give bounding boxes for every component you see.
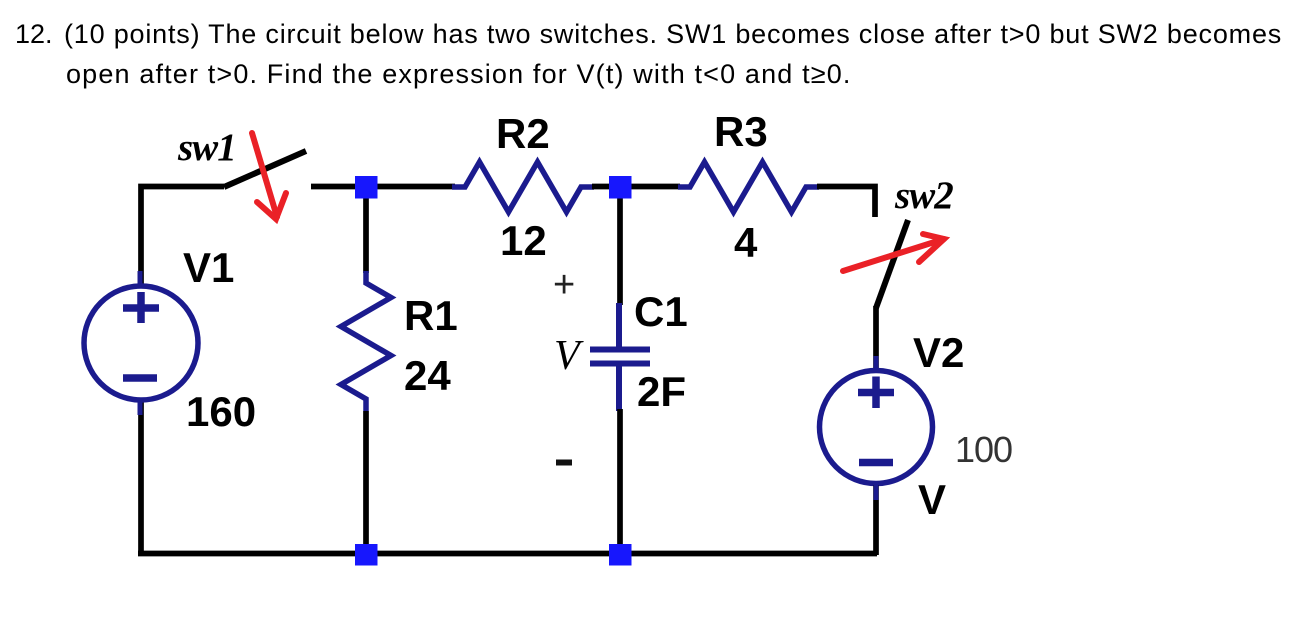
svg-text:2F: 2F	[637, 368, 686, 415]
svg-text:V1: V1	[183, 244, 234, 291]
label V across capacitor	[554, 333, 584, 379]
wire V2 bottom to bottom rail	[873, 485, 879, 555]
label R1	[404, 292, 458, 339]
label R3	[714, 108, 768, 155]
unit V	[918, 476, 946, 523]
wire sw2 to V2	[873, 306, 879, 371]
wire node2 down to C1	[617, 189, 623, 305]
label R2	[496, 110, 550, 157]
label sw1	[177, 126, 236, 169]
value 160	[186, 388, 256, 435]
node junction bottom-middle	[609, 544, 632, 566]
switch sw1 red arrow	[252, 133, 286, 219]
wire C1 bottom to bottom rail	[617, 409, 623, 553]
switch sw2 red arrow	[843, 234, 944, 271]
label V2	[913, 329, 964, 376]
value 100	[955, 429, 1012, 470]
resistor R1	[341, 271, 391, 411]
label C1	[634, 288, 688, 335]
polarity plus	[553, 264, 575, 306]
svg-text:100: 100	[955, 429, 1012, 470]
svg-text:R3: R3	[714, 108, 768, 155]
svg-text:V: V	[918, 476, 946, 523]
svg-text:C1: C1	[634, 288, 688, 335]
svg-text:12: 12	[500, 217, 547, 264]
node junction top-left	[355, 176, 378, 199]
svg-text:24: 24	[404, 352, 451, 399]
svg-text:V2: V2	[913, 329, 964, 376]
switch sw2 blade	[876, 220, 908, 308]
bottom rail wire	[138, 551, 877, 557]
value 12	[500, 217, 547, 264]
resistor R3	[678, 162, 819, 212]
problem statement line 2	[66, 59, 852, 90]
wire top segment from sw1 to R2	[311, 184, 455, 190]
svg-text:V: V	[554, 333, 584, 379]
switch sw1 blade	[224, 151, 306, 187]
V2 top lead stub	[874, 356, 879, 371]
value 2F	[637, 368, 686, 415]
wire between R2 and R3	[592, 184, 680, 190]
svg-text:R2: R2	[496, 110, 550, 157]
value 4	[734, 219, 758, 266]
wire from R3 to sw2 corner	[817, 187, 875, 218]
problem statement line 1	[15, 19, 53, 50]
V2 bottom lead stub	[874, 485, 879, 500]
svg-text:R1: R1	[404, 292, 458, 339]
wire left vertical lower (V1 bottom to bottom rail)	[138, 398, 144, 553]
capacitor C1	[590, 303, 650, 411]
svg-text:sw1: sw1	[177, 126, 236, 169]
node junction bottom-left	[355, 544, 378, 566]
svg-text:160: 160	[186, 388, 256, 435]
wire node1 down to R1	[363, 188, 369, 273]
polarity minus	[556, 460, 572, 466]
label sw2	[894, 174, 953, 217]
wire R1 bottom to bottom rail	[363, 411, 369, 553]
wire left vertical and top-left segment	[141, 187, 224, 289]
node junction top-middle	[609, 176, 632, 199]
value 24	[404, 352, 451, 399]
svg-text:+: +	[553, 264, 575, 306]
svg-text:sw2: sw2	[894, 174, 953, 217]
voltage source V2	[820, 371, 933, 484]
label V1	[183, 244, 234, 291]
svg-text:4: 4	[734, 219, 758, 266]
voltage source V1	[84, 271, 198, 415]
resistor R2	[452, 162, 594, 212]
